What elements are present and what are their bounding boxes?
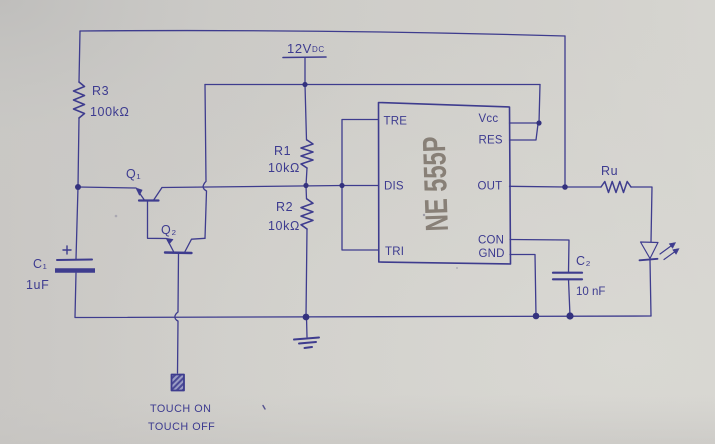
svg-text:10kΩ: 10kΩ	[268, 219, 300, 233]
wire OUT pin to node	[510, 185, 566, 188]
wire bottom rail to ground	[306, 317, 309, 337]
speck	[456, 267, 458, 269]
resistor R3	[74, 82, 85, 118]
node 12V-rail2	[302, 82, 307, 87]
wire left vertical top (top rail to R3)	[79, 31, 80, 82]
svg-text:GND: GND	[479, 248, 505, 260]
svg-text:R3: R3	[92, 84, 109, 98]
svg-text:DIS: DIS	[384, 181, 404, 193]
wire rail2	[205, 84, 540, 86]
wire bottom rail	[75, 316, 651, 318]
resistor Ru	[601, 182, 631, 193]
svg-text:Q₁: Q₁	[126, 167, 141, 181]
node GND-bottom	[533, 313, 540, 320]
wire TRE link	[342, 120, 379, 251]
wire main horizontal left segment	[78, 187, 136, 188]
svg-text:OUT: OUT	[478, 181, 503, 193]
svg-text:Vcc: Vcc	[479, 113, 499, 125]
svg-text:Ru: Ru	[601, 164, 618, 178]
wire GND pin	[510, 255, 536, 317]
svg-text:TOUCH ON: TOUCH ON	[150, 403, 211, 415]
svg-text:10kΩ: 10kΩ	[268, 161, 300, 175]
wire CON pin	[510, 240, 569, 273]
node TRE-TRI-DIS	[339, 183, 344, 188]
wire right vertical from top rail to OUT node	[564, 36, 566, 187]
node OUT	[562, 184, 568, 190]
resistor R1	[301, 140, 313, 168]
wire main node down to C1	[76, 187, 78, 259]
wire RES pin loop	[510, 124, 539, 140]
transistor Q1	[136, 188, 166, 239]
svg-text:1uF: 1uF	[26, 278, 49, 292]
svg-text:TRI: TRI	[385, 246, 404, 258]
wire OUT node to Ru	[565, 186, 601, 188]
wire node to R2	[305, 186, 308, 200]
wire Q2 collector vertical with hop at main wire	[203, 85, 206, 239]
svg-text:10 nF: 10 nF	[576, 286, 605, 298]
wire R1 to node	[306, 168, 307, 186]
svg-text:C₂: C₂	[576, 254, 591, 268]
wire Ru to LED	[631, 187, 652, 242]
wire C1 to bottom rail	[75, 273, 76, 317]
node C2-bottom	[566, 312, 573, 319]
svg-text:TOUCH OFF: TOUCH OFF	[148, 421, 215, 433]
svg-text:CON: CON	[478, 235, 504, 247]
wire 12V down to R1	[305, 85, 307, 141]
transistor Q2	[165, 238, 205, 373]
diode LED D1	[640, 242, 680, 260]
svg-text:NE 555P: NE 555P	[416, 136, 455, 232]
node R2-bottom	[303, 314, 310, 321]
node R1-R2-DIS	[303, 183, 308, 188]
svg-text:Q₂: Q₂	[161, 223, 177, 237]
speck	[423, 214, 425, 216]
IC U1 NE555P box	[379, 103, 511, 265]
svg-text:C₁: C₁	[33, 257, 47, 271]
wire top rail	[80, 31, 565, 36]
wire R2 to bottom rail	[306, 229, 307, 317]
node Vcc-RES	[536, 120, 541, 125]
svg-text:RES: RES	[479, 135, 503, 147]
wire R3 to main node	[78, 118, 79, 187]
svg-text:R2: R2	[276, 200, 293, 214]
speck	[263, 406, 265, 410]
svg-text:R1: R1	[274, 144, 291, 158]
svg-text:TRE: TRE	[384, 116, 408, 128]
speck	[115, 215, 118, 218]
ground	[294, 338, 319, 349]
wire LED to bottom rail	[650, 260, 651, 316]
node main-left	[75, 184, 81, 190]
wire main horizontal to DIS pin	[162, 186, 379, 188]
resistor R2	[301, 199, 313, 229]
svg-text:100kΩ: 100kΩ	[90, 105, 129, 119]
wire Vcc pin	[510, 122, 540, 124]
touch plate	[172, 375, 185, 391]
power 12VDC tap	[283, 56, 326, 59]
wire rail2 down to Vcc node	[539, 85, 540, 124]
wire C2 to bottom rail	[569, 279, 571, 316]
capacitor C2	[553, 273, 582, 280]
capacitor C1	[55, 246, 95, 271]
